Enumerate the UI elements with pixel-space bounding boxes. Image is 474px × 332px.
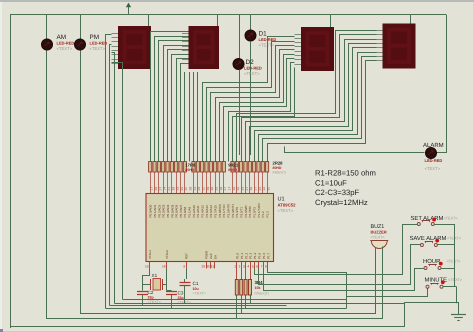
wire loop b <box>115 303 405 305</box>
LED D1 <box>245 30 276 47</box>
wire bundle disp4 fan <box>237 31 377 161</box>
svg-text:2R28: 2R28 <box>273 161 284 166</box>
wire disp4 feed <box>410 15 412 24</box>
svg-text:<TEXT>: <TEXT> <box>90 46 106 51</box>
svg-text:PSEN: PSEN <box>205 251 209 259</box>
wire left outer drop <box>10 15 12 328</box>
wire right bus vertical <box>454 224 456 287</box>
svg-text:6: 6 <box>256 265 258 269</box>
svg-text:RRB(X[T]: RRB(X[T] <box>273 171 287 175</box>
svg-text:LED-RED: LED-RED <box>425 158 443 163</box>
7-segment display MIN-TENS <box>301 27 334 71</box>
svg-text:P1.1: P1.1 <box>240 252 244 259</box>
LED D2 <box>233 58 262 76</box>
LED PM <box>74 34 107 51</box>
svg-text:Crystal=12MHz: Crystal=12MHz <box>315 198 368 207</box>
svg-text:P1.7: P1.7 <box>266 252 270 259</box>
wire disp3 feed <box>330 15 332 27</box>
wire bundle disp1 left drops <box>106 35 123 309</box>
svg-text:5: 5 <box>252 265 254 269</box>
wire D2 feed <box>239 15 241 59</box>
wire disp1 loop a <box>106 308 347 310</box>
7-segment display HOURS-UNITS <box>189 26 220 69</box>
7-segment display MIN-UNITS <box>383 24 416 69</box>
wire P1.4 to SET <box>255 225 418 275</box>
svg-text:80HD: 80HD <box>185 168 194 172</box>
capacitor C1 <box>180 269 206 304</box>
svg-text:P1.5: P1.5 <box>258 252 262 259</box>
disp2 pins <box>182 34 189 64</box>
wire XTAL1 net <box>143 269 150 291</box>
LED ALARM <box>423 142 444 171</box>
wire D1 feed <box>250 15 252 30</box>
svg-text:HOUR: HOUR <box>423 258 440 265</box>
svg-text:EA: EA <box>214 255 218 259</box>
button HOUR <box>423 258 443 270</box>
svg-text:<TEXT>: <TEXT> <box>448 278 463 282</box>
wire loop d <box>123 299 347 301</box>
disp4 pins <box>376 31 383 61</box>
button SAVE ALARM <box>410 235 447 247</box>
wire disp1 feed <box>148 15 150 26</box>
svg-text:3: 3 <box>243 265 245 269</box>
svg-text:<TEXT>: <TEXT> <box>244 71 260 76</box>
svg-text:19: 19 <box>145 265 149 269</box>
wire alarm right riser <box>437 15 447 153</box>
svg-text:9: 9 <box>183 265 185 269</box>
decorative corner artifact <box>0 329 3 332</box>
svg-text:<TEXT>: <TEXT> <box>425 166 441 171</box>
disp1 pins <box>112 34 119 64</box>
svg-text:30: 30 <box>267 187 271 191</box>
wire PM loop <box>81 51 376 314</box>
resistor network R1-R28 <box>149 156 269 194</box>
svg-text:10k: 10k <box>255 286 261 290</box>
svg-text:ALE: ALE <box>209 253 213 259</box>
svg-text:C3: C3 <box>178 291 184 296</box>
wire alarm left run <box>285 147 425 153</box>
wire bundle left extra drops <box>185 72 198 161</box>
wire button right bus <box>435 224 455 226</box>
ground <box>451 315 466 321</box>
wire bottom outer run <box>10 326 405 328</box>
svg-text:<TEXT>: <TEXT> <box>447 260 462 264</box>
svg-text:31: 31 <box>210 265 214 269</box>
resistor pack R29-R32 <box>235 269 251 319</box>
svg-text:80HD: 80HD <box>228 168 237 172</box>
U1 top port labels <box>149 203 270 218</box>
U1 bottom pin labels <box>148 250 270 259</box>
svg-text:P1.2: P1.2 <box>244 252 248 259</box>
wire AM feed <box>46 15 48 39</box>
svg-text:C1: C1 <box>193 281 199 286</box>
crystal X1 <box>143 273 167 290</box>
svg-text:7: 7 <box>261 265 263 269</box>
wire VCC top rail <box>10 14 446 16</box>
resistor pin numbers <box>150 187 271 191</box>
svg-text:<TEXT>: <TEXT> <box>444 217 459 221</box>
wire minute riser <box>347 289 428 309</box>
svg-text:80HD: 80HD <box>273 166 282 170</box>
svg-text:9R21: 9R21 <box>228 163 239 168</box>
U1 bottom pin stubs <box>145 262 268 269</box>
wire P1.6 to HOUR <box>264 269 424 291</box>
svg-text:<TEXT>: <TEXT> <box>259 42 275 47</box>
svg-text:BUZZER: BUZZER <box>371 230 387 235</box>
svg-text:10u: 10u <box>193 287 199 291</box>
svg-text:X1: X1 <box>152 273 158 278</box>
svg-text:LED-RED: LED-RED <box>90 40 108 45</box>
svg-text:2: 2 <box>239 265 241 269</box>
wire bundle disp2 staircase <box>151 32 189 161</box>
svg-text:XTAL1: XTAL1 <box>148 250 152 259</box>
wire D2 drop <box>239 70 241 156</box>
buzzer BUZ1 <box>370 224 388 248</box>
svg-text:17R8: 17R8 <box>185 163 196 168</box>
button SET ALARM <box>411 215 444 226</box>
svg-text:P1.4: P1.4 <box>253 252 257 259</box>
svg-text:4: 4 <box>247 265 249 269</box>
svg-text:<TEXT>: <TEXT> <box>371 236 386 240</box>
wire P1.7 riser <box>268 269 347 297</box>
svg-text:C1=10uF: C1=10uF <box>315 178 347 187</box>
wire D1 lower drop <box>250 41 252 155</box>
note annotations <box>315 169 376 207</box>
wire P1.5 to SAVE <box>259 245 421 285</box>
svg-text:RRB(X[T]: RRB(X[T] <box>255 292 269 296</box>
svg-text:18: 18 <box>162 265 166 269</box>
wire buzzer leads <box>375 248 377 314</box>
disp3 pins <box>295 35 302 65</box>
svg-text:<TEXT>: <TEXT> <box>57 46 73 51</box>
svg-text:C2: C2 <box>148 290 154 295</box>
wire disp2 feed <box>217 15 219 26</box>
button MINUTE <box>425 277 448 289</box>
svg-text:R1-R28=150 ohm: R1-R28=150 ohm <box>315 169 376 178</box>
wire bundle disp3 fan <box>203 37 295 161</box>
svg-text:P1.0: P1.0 <box>236 252 240 259</box>
svg-text:8: 8 <box>265 265 267 269</box>
svg-text:P1.3: P1.3 <box>266 211 270 218</box>
svg-text:33p: 33p <box>148 296 155 300</box>
capacitor C3 <box>166 291 191 309</box>
svg-text:1: 1 <box>234 265 236 269</box>
svg-text:LED-RED: LED-RED <box>57 40 75 45</box>
wire AM loop <box>47 51 383 319</box>
svg-text:P1.3: P1.3 <box>249 252 253 259</box>
svg-text:ALARM: ALARM <box>423 142 444 149</box>
wire outer riser to ground rail <box>405 303 459 327</box>
wire loop c <box>110 305 287 307</box>
power VCC symbol <box>126 3 131 15</box>
svg-text:LED-RED: LED-RED <box>244 65 262 70</box>
op-amp U1 AT89C52 MCU body <box>146 194 274 262</box>
svg-text:<TEXT>: <TEXT> <box>278 208 294 213</box>
svg-text:30: 30 <box>206 265 210 269</box>
svg-text:C2-C3=33pF: C2-C3=33pF <box>315 188 360 197</box>
svg-text:P1.6: P1.6 <box>262 252 266 259</box>
svg-text:AT89C52: AT89C52 <box>278 203 297 208</box>
svg-text:RST: RST <box>185 253 189 259</box>
svg-text:<TEXT>: <TEXT> <box>193 292 206 296</box>
capacitor C2 <box>137 290 161 305</box>
svg-text:XTAL2: XTAL2 <box>165 250 169 259</box>
wire PM feed <box>80 15 82 39</box>
LED AM <box>41 34 74 51</box>
wire XTAL2 net <box>166 269 168 291</box>
svg-text:SAVE ALARM: SAVE ALARM <box>410 235 447 242</box>
7-segment display HOURS-TENS <box>118 26 151 69</box>
svg-text:29: 29 <box>201 265 205 269</box>
